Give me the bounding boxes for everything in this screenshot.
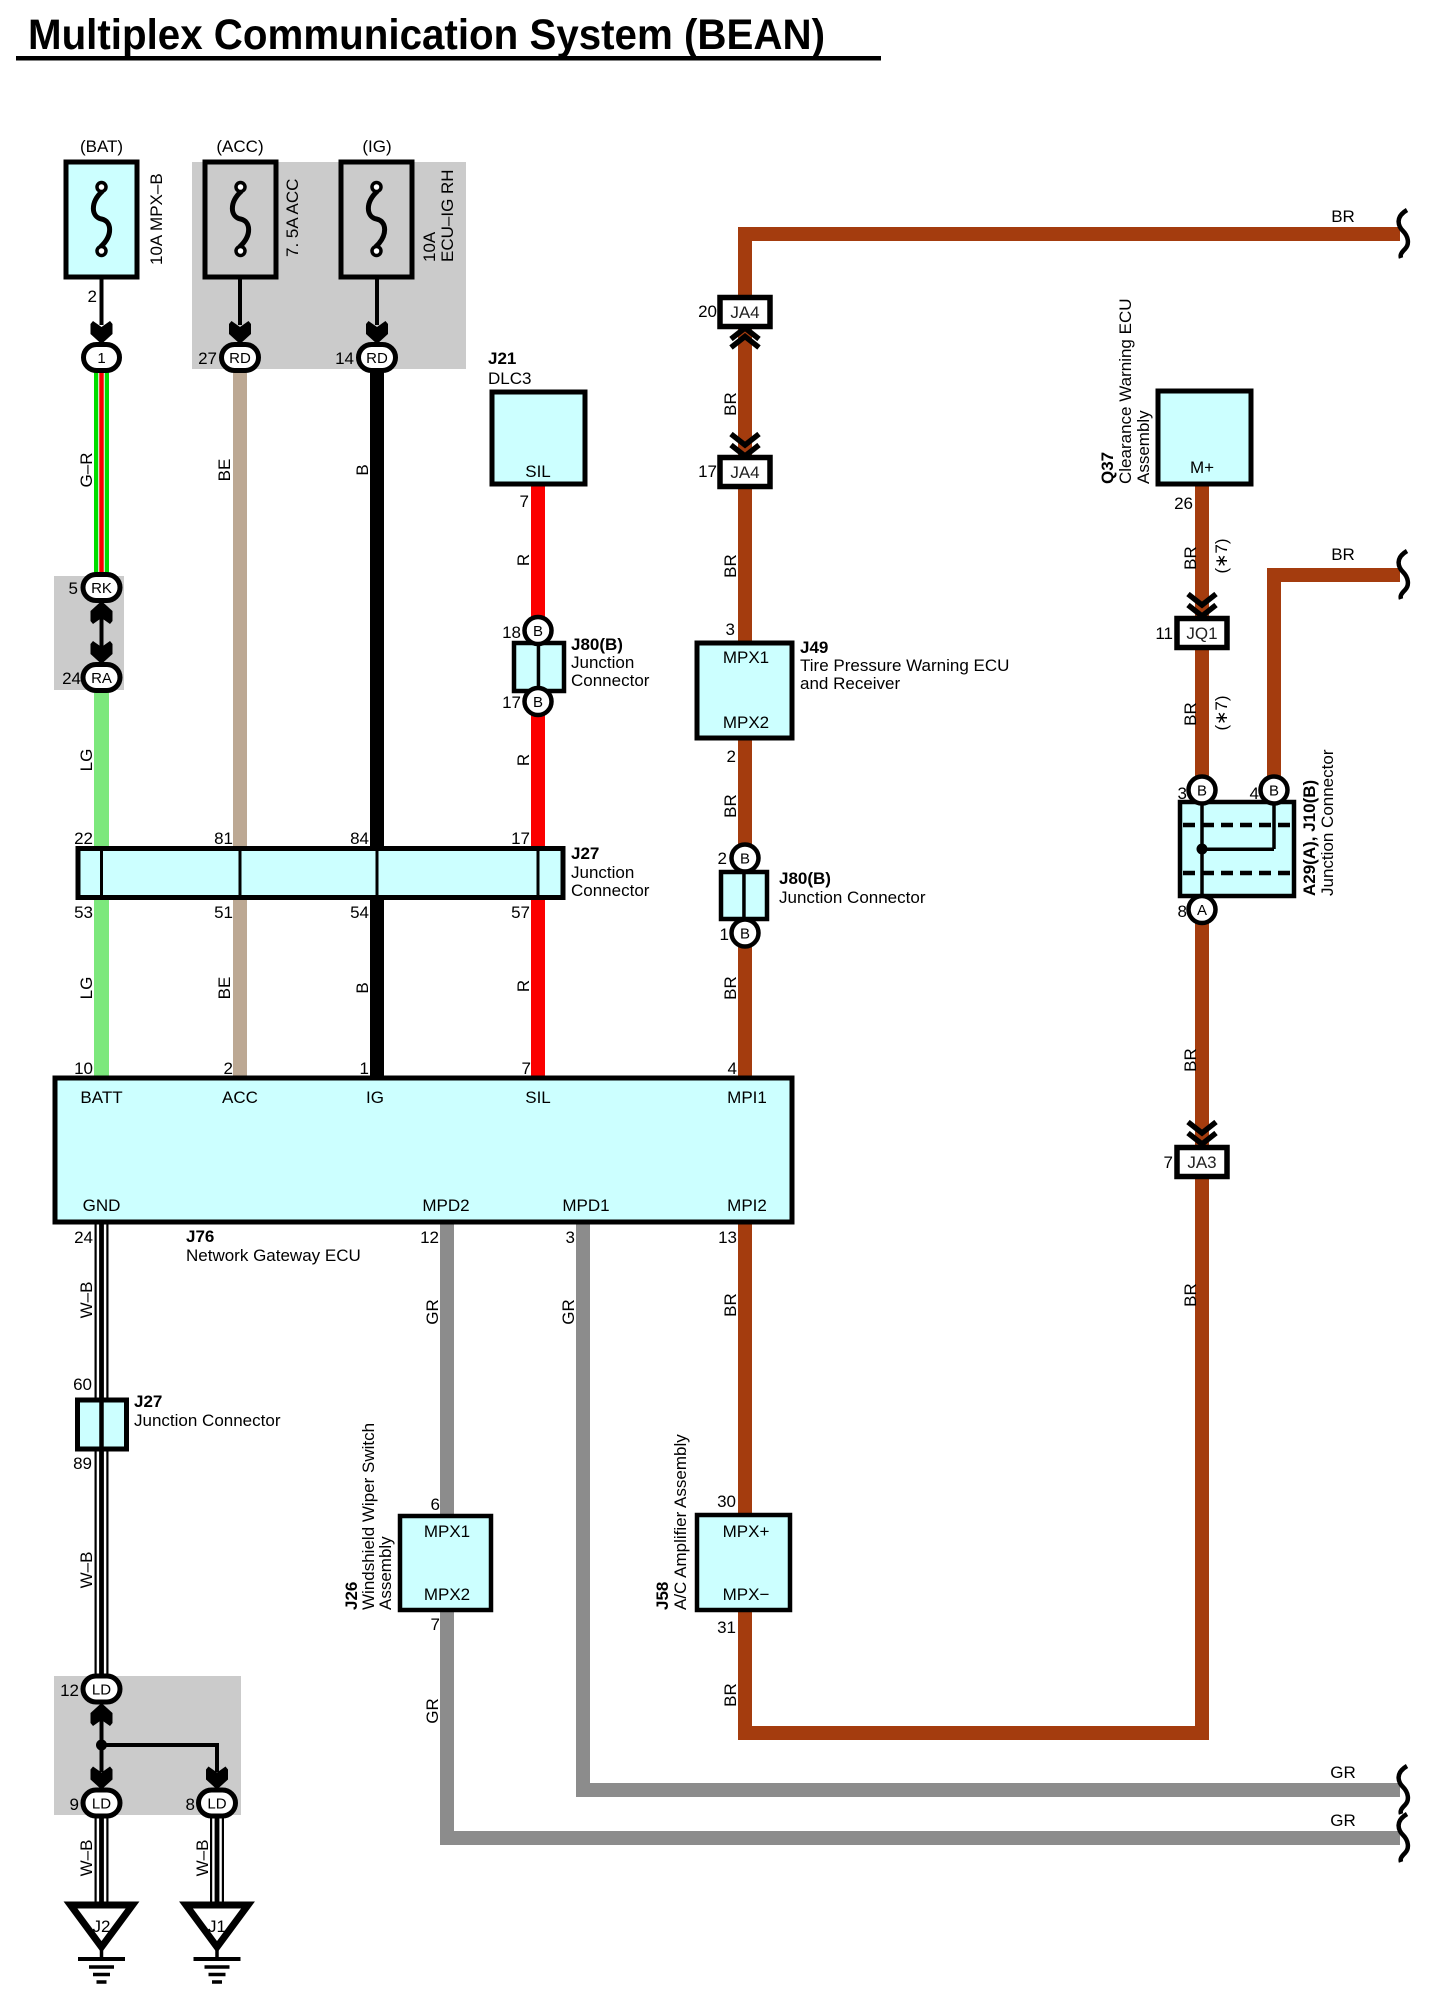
svg-text:BATT: BATT [80, 1088, 122, 1107]
svg-text:B: B [1269, 782, 1279, 799]
svg-text:and Receiver: and Receiver [800, 674, 901, 693]
svg-text:GR: GR [423, 1299, 442, 1325]
svg-text:J49: J49 [800, 638, 828, 657]
svg-text:51: 51 [214, 903, 233, 922]
svg-text:BR: BR [1181, 1048, 1200, 1072]
svg-text:Assembly: Assembly [1134, 410, 1153, 484]
svg-text:LD: LD [92, 1795, 111, 1812]
svg-text:2: 2 [88, 287, 97, 306]
svg-text:7: 7 [522, 1059, 531, 1078]
svg-text:2: 2 [224, 1059, 233, 1078]
svg-text:GR: GR [1330, 1763, 1356, 1782]
svg-text:BR: BR [1181, 546, 1200, 570]
svg-text:MPD2: MPD2 [422, 1196, 469, 1215]
svg-text:54: 54 [350, 903, 369, 922]
svg-text:1: 1 [720, 925, 729, 944]
svg-text:11: 11 [1155, 624, 1173, 643]
svg-text:R: R [514, 754, 533, 766]
svg-text:LD: LD [207, 1795, 226, 1812]
svg-text:R: R [514, 554, 533, 566]
svg-text:20: 20 [698, 302, 717, 321]
svg-text:RA: RA [91, 670, 112, 687]
svg-text:Multiplex Communication System: Multiplex Communication System (BEAN) [28, 11, 825, 59]
svg-text:MPI1: MPI1 [727, 1088, 767, 1107]
svg-text:B: B [740, 925, 750, 942]
svg-text:57: 57 [511, 903, 530, 922]
svg-text:5: 5 [69, 579, 78, 598]
svg-text:1: 1 [97, 350, 105, 367]
svg-text:Tire Pressure Warning ECU: Tire Pressure Warning ECU [800, 656, 1009, 675]
svg-text:B: B [353, 464, 372, 475]
svg-text:B: B [533, 623, 543, 640]
svg-text:14: 14 [335, 349, 354, 368]
svg-text:IG: IG [366, 1088, 384, 1107]
svg-text:81: 81 [214, 829, 233, 848]
svg-text:3: 3 [1178, 784, 1187, 803]
svg-text:W–B: W–B [77, 1552, 96, 1589]
svg-text:LG: LG [77, 977, 96, 1000]
svg-text:84: 84 [350, 829, 369, 848]
svg-text:BR: BR [721, 1293, 740, 1317]
svg-text:7: 7 [1164, 1153, 1173, 1172]
svg-text:R: R [514, 980, 533, 992]
svg-text:89: 89 [73, 1454, 92, 1473]
svg-text:A: A [1197, 902, 1207, 919]
svg-text:BR: BR [1181, 702, 1200, 726]
svg-text:MPD1: MPD1 [562, 1196, 609, 1215]
svg-text:A/C Amplifier Assembly: A/C Amplifier Assembly [671, 1434, 690, 1610]
svg-text:8: 8 [186, 1795, 195, 1814]
svg-text:2: 2 [727, 747, 736, 766]
svg-text:MPI2: MPI2 [727, 1196, 767, 1215]
svg-text:BE: BE [215, 977, 234, 1000]
svg-text:30: 30 [717, 1492, 736, 1511]
svg-text:ACC: ACC [222, 1088, 258, 1107]
svg-text:GR: GR [1330, 1811, 1356, 1830]
svg-text:1: 1 [360, 1059, 369, 1078]
svg-text:GND: GND [83, 1196, 121, 1215]
svg-text:13: 13 [718, 1228, 737, 1247]
svg-text:8: 8 [1178, 902, 1187, 921]
svg-text:10: 10 [74, 1059, 93, 1078]
svg-text:Junction Connector: Junction Connector [134, 1411, 281, 1430]
svg-text:12: 12 [60, 1681, 79, 1700]
svg-text:MPX2: MPX2 [723, 713, 769, 732]
svg-text:31: 31 [717, 1618, 736, 1637]
svg-text:Assembly: Assembly [376, 1536, 395, 1610]
svg-text:BR: BR [1331, 207, 1355, 226]
svg-text:J27: J27 [571, 844, 599, 863]
svg-text:LG: LG [77, 749, 96, 772]
svg-text:SIL: SIL [525, 1088, 551, 1107]
svg-text:BR: BR [1181, 1283, 1200, 1307]
svg-text:LD: LD [92, 1681, 111, 1698]
svg-text:9: 9 [70, 1795, 79, 1814]
svg-text:DLC3: DLC3 [488, 369, 531, 388]
svg-text:BR: BR [1331, 545, 1355, 564]
svg-text:7: 7 [431, 1615, 440, 1634]
svg-text:RK: RK [91, 580, 112, 597]
svg-text:GR: GR [559, 1299, 578, 1325]
svg-text:Network Gateway ECU: Network Gateway ECU [186, 1246, 361, 1265]
svg-text:26: 26 [1174, 494, 1193, 513]
svg-text:BR: BR [721, 392, 740, 416]
svg-text:60: 60 [73, 1375, 92, 1394]
svg-text:22: 22 [74, 829, 93, 848]
svg-text:24: 24 [74, 1228, 93, 1247]
svg-text:17: 17 [511, 829, 530, 848]
svg-text:(IG): (IG) [362, 137, 391, 156]
svg-text:JA3: JA3 [1187, 1153, 1216, 1172]
svg-text:24: 24 [62, 669, 81, 688]
svg-text:10A: 10A [420, 231, 439, 262]
svg-text:Junction Connector: Junction Connector [1318, 749, 1337, 896]
svg-text:27: 27 [198, 349, 217, 368]
svg-text:G–R: G–R [77, 453, 96, 488]
svg-text:RD: RD [366, 350, 388, 367]
svg-text:W–B: W–B [77, 1282, 96, 1319]
svg-text:W–B: W–B [193, 1840, 212, 1877]
svg-text:MPX−: MPX− [723, 1585, 770, 1604]
svg-text:B: B [740, 850, 750, 867]
svg-text:3: 3 [566, 1228, 575, 1247]
svg-text:B: B [533, 694, 543, 711]
svg-text:10A MPX–B: 10A MPX–B [147, 173, 166, 265]
svg-text:Clearance Warning ECU: Clearance Warning ECU [1116, 299, 1135, 485]
svg-text:17: 17 [502, 693, 521, 712]
svg-text:BE: BE [215, 459, 234, 482]
svg-text:18: 18 [502, 623, 521, 642]
svg-text:(BAT): (BAT) [80, 137, 123, 156]
svg-text:Connector: Connector [571, 881, 650, 900]
svg-text:M+: M+ [1190, 458, 1214, 477]
svg-text:Q37: Q37 [1098, 452, 1117, 484]
svg-text:ECU–IG RH: ECU–IG RH [438, 169, 457, 262]
svg-text:Junction Connector: Junction Connector [779, 888, 926, 907]
svg-text:BR: BR [721, 976, 740, 1000]
svg-text:B: B [1197, 782, 1207, 799]
svg-text:BR: BR [721, 794, 740, 818]
svg-text:J1: J1 [208, 1917, 226, 1936]
svg-text:Connector: Connector [571, 671, 650, 690]
svg-text:Junction: Junction [571, 863, 634, 882]
svg-text:J76: J76 [186, 1227, 214, 1246]
svg-text:MPX+: MPX+ [723, 1522, 770, 1541]
svg-text:12: 12 [420, 1228, 439, 1247]
svg-text:(ACC): (ACC) [216, 137, 263, 156]
svg-text:J21: J21 [488, 349, 516, 368]
svg-text:J2: J2 [93, 1917, 111, 1936]
svg-text:A29(A), J10(B): A29(A), J10(B) [1300, 780, 1319, 896]
svg-text:7. 5A ACC: 7. 5A ACC [283, 179, 302, 257]
svg-text:MPX1: MPX1 [723, 648, 769, 667]
svg-text:B: B [353, 982, 372, 993]
svg-text:MPX2: MPX2 [424, 1585, 470, 1604]
svg-text:J80(B): J80(B) [779, 869, 831, 888]
svg-text:JQ1: JQ1 [1186, 624, 1217, 643]
svg-text:53: 53 [74, 903, 93, 922]
svg-text:J58: J58 [653, 1582, 672, 1610]
svg-text:3: 3 [726, 620, 735, 639]
svg-text:BR: BR [721, 554, 740, 578]
svg-text:SIL: SIL [525, 462, 551, 481]
svg-text:RD: RD [229, 350, 251, 367]
svg-text:GR: GR [423, 1698, 442, 1724]
svg-text:4: 4 [728, 1059, 737, 1078]
svg-text:JA4: JA4 [730, 303, 759, 322]
svg-text:17: 17 [698, 462, 717, 481]
svg-text:7: 7 [520, 492, 529, 511]
svg-text:BR: BR [721, 1683, 740, 1707]
svg-text:2: 2 [718, 849, 727, 868]
svg-text:6: 6 [431, 1495, 440, 1514]
svg-text:W–B: W–B [77, 1840, 96, 1877]
svg-text:J27: J27 [134, 1392, 162, 1411]
svg-text:Junction: Junction [571, 653, 634, 672]
svg-text:(∗7): (∗7) [1212, 695, 1231, 730]
svg-text:J80(B): J80(B) [571, 635, 623, 654]
svg-text:MPX1: MPX1 [424, 1522, 470, 1541]
svg-text:4: 4 [1250, 784, 1259, 803]
svg-text:(∗7): (∗7) [1212, 538, 1231, 573]
svg-text:JA4: JA4 [730, 463, 759, 482]
